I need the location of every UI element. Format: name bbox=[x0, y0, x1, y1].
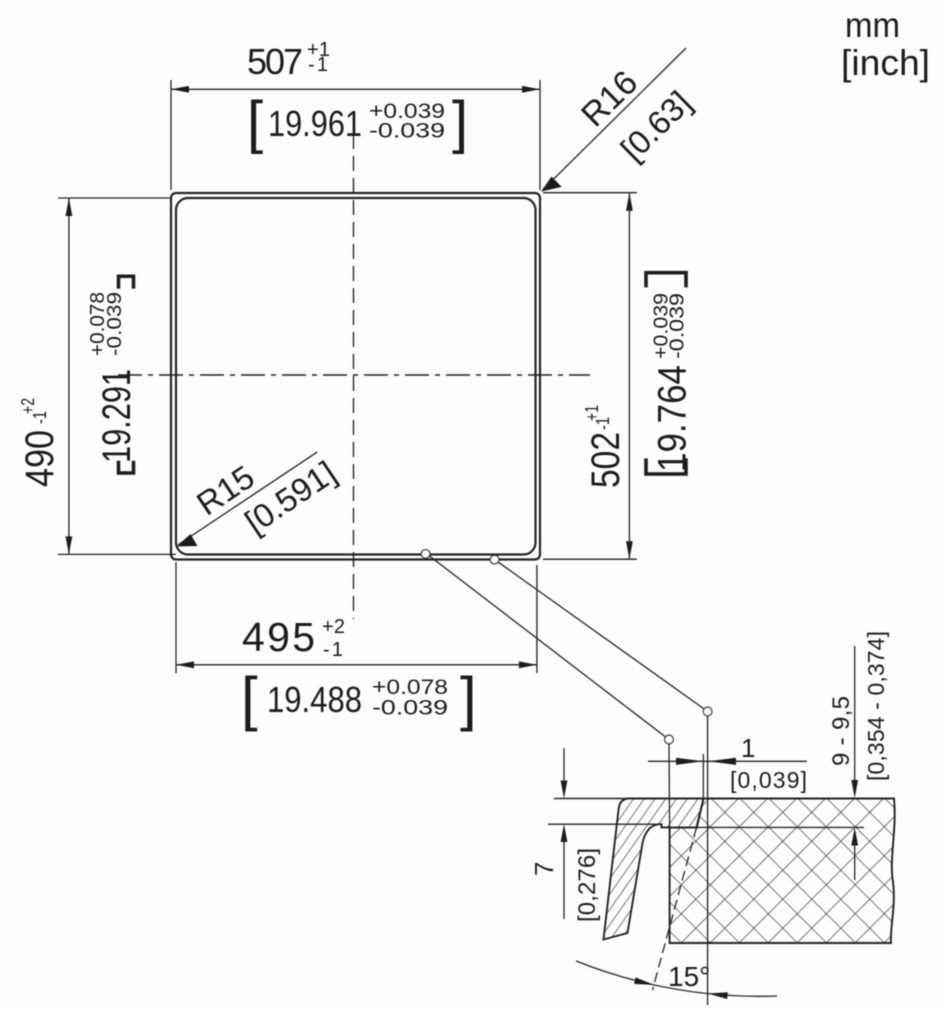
dim 507 dimension line bbox=[171, 88, 540, 90]
section rabbet line with jog bbox=[548, 824, 864, 827]
dim 490 inch bracket open bbox=[119, 461, 134, 473]
svg-text:495: 495 bbox=[242, 614, 315, 660]
horizontal centerline bbox=[118, 374, 590, 376]
svg-text:-1: -1 bbox=[30, 411, 50, 424]
cutout outline (plan view) bbox=[176, 198, 536, 555]
radius R16 leader bbox=[543, 48, 686, 190]
radius R15 leader bbox=[179, 452, 318, 544]
svg-text:-1: -1 bbox=[593, 417, 613, 430]
leader from circle A to section bbox=[430, 556, 666, 737]
svg-text:+2: +2 bbox=[322, 616, 345, 638]
svg-text:mm: mm bbox=[845, 6, 900, 45]
svg-text:]: ] bbox=[460, 665, 477, 732]
svg-text:19.488: 19.488 bbox=[267, 679, 362, 720]
dim 490 extension lines bbox=[58, 197, 172, 199]
section rim reference line bbox=[668, 744, 671, 830]
15 degree dashed line bbox=[653, 828, 697, 991]
dim 9-9.5 inch label (rotated) bbox=[863, 631, 889, 781]
section: countertop slab crosshatched bbox=[670, 799, 895, 944]
dim 490 inch label (rotated) bbox=[87, 292, 139, 463]
svg-text:[: [ bbox=[241, 665, 258, 732]
reference circle D top of section centerline bbox=[703, 707, 712, 716]
reference circle B on outer bottom edge bbox=[490, 555, 499, 564]
svg-text:[0,039]: [0,039] bbox=[730, 767, 807, 793]
dim 502 inch bracket close bbox=[646, 273, 686, 288]
dim 495 extension lines bbox=[175, 562, 177, 673]
dim 7 inch label (rotated) bbox=[574, 848, 601, 922]
svg-text:[0,354 - 0,374]: [0,354 - 0,374] bbox=[863, 631, 889, 781]
dim 1 dimension line bbox=[648, 760, 807, 762]
15 degree arc bbox=[576, 961, 777, 996]
svg-text:-0.039: -0.039 bbox=[104, 292, 126, 356]
svg-text:19.764: 19.764 bbox=[651, 365, 695, 472]
svg-text:-1: -1 bbox=[308, 54, 328, 76]
dim 9-9.5 label (rotated) bbox=[828, 696, 855, 766]
dim 490 label (rotated) bbox=[18, 398, 62, 487]
section centerline bbox=[707, 716, 709, 1005]
dim 502 inch label (rotated) bbox=[651, 293, 695, 472]
svg-text:1: 1 bbox=[741, 733, 755, 763]
svg-text:490: 490 bbox=[18, 430, 62, 487]
svg-text:]: ] bbox=[452, 90, 468, 155]
sink outer outline (plan view) bbox=[171, 193, 540, 560]
svg-text:19.291: 19.291 bbox=[95, 369, 139, 463]
section: sink rim hatched bbox=[604, 799, 704, 940]
svg-text:507: 507 bbox=[247, 41, 303, 82]
dim 7 label (rotated) bbox=[529, 862, 559, 876]
dim 502 label (rotated) bbox=[582, 405, 628, 488]
svg-text:502: 502 bbox=[584, 432, 628, 488]
svg-text:-0.039: -0.039 bbox=[667, 293, 689, 359]
svg-text:-0.039: -0.039 bbox=[369, 120, 445, 143]
svg-text:-1: -1 bbox=[323, 639, 343, 661]
svg-text:[: [ bbox=[247, 90, 263, 155]
svg-text:[inch]: [inch] bbox=[841, 42, 930, 83]
dim 490 inch bracket close bbox=[119, 276, 134, 288]
section top surface line bbox=[554, 798, 894, 800]
svg-text:[0,276]: [0,276] bbox=[574, 848, 601, 922]
small arrow above top surface bbox=[563, 748, 565, 782]
cutout edge extension line bbox=[702, 754, 704, 798]
arc arrow at centerline bbox=[708, 992, 728, 999]
dim 490 dimension line bbox=[68, 198, 70, 554]
dim 502 inch bracket open bbox=[646, 458, 686, 474]
dim 9-9.5 inner arrow bbox=[851, 828, 858, 846]
dim 507 extension lines bbox=[170, 80, 172, 190]
svg-text:7: 7 bbox=[529, 862, 559, 876]
leader from circle B to section bbox=[499, 562, 705, 709]
svg-text:-0.039: -0.039 bbox=[372, 697, 448, 720]
svg-text:19.961: 19.961 bbox=[268, 103, 362, 144]
radius R15 label (rotated) bbox=[190, 419, 343, 557]
dim 502 extension lines bbox=[543, 192, 637, 194]
reference circle C top of rim line bbox=[665, 735, 674, 744]
dim 9-9.5 dimension line bbox=[854, 646, 856, 781]
radius R16 label (rotated) bbox=[574, 47, 698, 171]
dim 495 dimension line bbox=[176, 664, 537, 666]
arc arrow at slant line bbox=[634, 977, 654, 985]
svg-text:9 - 9,5: 9 - 9,5 bbox=[828, 696, 855, 766]
svg-text:15°: 15° bbox=[668, 961, 710, 992]
vertical centerline bbox=[353, 134, 355, 619]
dim 7 arrow bbox=[561, 824, 568, 842]
reference circle A on cutout bottom edge bbox=[421, 550, 430, 559]
dim 502 dimension line bbox=[628, 193, 630, 560]
